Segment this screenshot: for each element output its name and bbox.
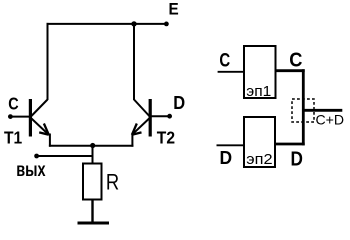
node output terminal bbox=[34, 154, 39, 159]
wire C input line to ЭП1 bbox=[218, 71, 244, 73]
block ЭП2 box bbox=[244, 117, 275, 167]
wire output tap bbox=[37, 155, 94, 157]
wire ЭП2 output bbox=[275, 143, 305, 146]
node emitter junction bbox=[90, 143, 95, 148]
svg-text:эп1: эп1 bbox=[246, 83, 271, 100]
wire D input line to ЭП2 bbox=[217, 144, 245, 146]
wire T2 collector vertical bbox=[133, 23, 135, 100]
svg-text:D: D bbox=[173, 93, 185, 113]
block ЭП1 box bbox=[244, 46, 276, 98]
wire shared emitter rail bbox=[49, 145, 133, 147]
transistor Q T1 base bar bbox=[29, 99, 32, 137]
resistor R body bbox=[83, 164, 102, 200]
svg-text:вых: вых bbox=[16, 160, 46, 181]
svg-text:D: D bbox=[291, 148, 303, 170]
svg-text:эп2: эп2 bbox=[246, 151, 272, 168]
transistor T2 emitter diagonal bbox=[132, 118, 150, 135]
node D input terminal bbox=[167, 114, 172, 119]
svg-text:T1: T1 bbox=[4, 128, 22, 148]
svg-text:C: C bbox=[8, 93, 19, 113]
svg-text:T2: T2 bbox=[157, 128, 175, 148]
svg-text:C: C bbox=[289, 49, 302, 71]
wire summing bus vertical bbox=[302, 69, 305, 145]
node junction on supply rail bbox=[131, 21, 136, 26]
wire T2 base lead bbox=[152, 115, 170, 117]
transistor T2 base bar bbox=[149, 99, 152, 137]
summing node dashed box bbox=[292, 99, 314, 122]
wire C+D output bbox=[303, 109, 342, 112]
wire T1 collector vertical bbox=[47, 23, 49, 100]
ground symbol bbox=[78, 222, 110, 225]
svg-text:E: E bbox=[169, 1, 179, 19]
transistor T2 collector diagonal bbox=[134, 100, 150, 118]
wire T1 emitter drop bbox=[49, 134, 51, 147]
wire T2 emitter drop bbox=[131, 134, 133, 147]
transistor T1 emitter diagonal bbox=[30, 118, 48, 135]
svg-text:R: R bbox=[106, 169, 119, 194]
transistor T2 emitter arrowhead bbox=[132, 124, 142, 135]
wire junction to resistor bbox=[92, 146, 94, 165]
svg-text:D: D bbox=[220, 147, 233, 168]
wire T1 base lead bbox=[10, 116, 29, 118]
svg-text:C+D: C+D bbox=[316, 113, 345, 128]
node E terminal bbox=[164, 22, 169, 27]
transistor T1 collector diagonal bbox=[30, 100, 47, 118]
transistor T1 emitter arrowhead bbox=[39, 124, 49, 135]
wire ЭП1 output bbox=[275, 69, 305, 72]
node C input terminal bbox=[8, 114, 13, 119]
wire top supply rail bbox=[47, 23, 167, 25]
svg-text:C: C bbox=[219, 49, 230, 71]
wire resistor to ground bbox=[91, 200, 93, 223]
